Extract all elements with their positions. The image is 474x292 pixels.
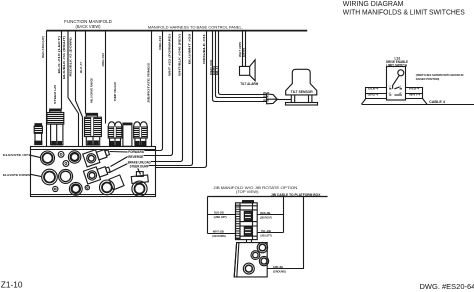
svg-text:(GROUND): (GROUND): [273, 269, 286, 273]
label LIMIT SWITCH: [386, 63, 408, 67]
limit switch terminal row box: [366, 88, 423, 99]
label ORG #13: [158, 36, 162, 50]
wire BLK #10 (LEFT): [61, 31, 63, 110]
label ELEVATE DOWN: [3, 173, 30, 177]
wire WHT-JIB: [208, 233, 236, 235]
label RED-JIB: [260, 211, 271, 215]
leader forward: [110, 151, 128, 154]
label WHT #255: [238, 42, 242, 57]
svg-text:ORG/BLK #31: ORG/BLK #31: [202, 33, 206, 64]
label WHT-JIB: [213, 230, 225, 234]
svg-text:RAISED POSITION): RAISED POSITION): [416, 77, 440, 81]
label BLU/WHT #29: [188, 33, 192, 64]
svg-text:GRN-JIB: GRN-JIB: [273, 265, 284, 269]
label (JIB DOWN): [212, 234, 226, 238]
label PUMP UNLOAD: [113, 82, 117, 101]
svg-text:WHT #23 (FORWARD): WHT #23 (FORWARD): [168, 34, 172, 76]
function manifold header: [64, 19, 112, 29]
svg-text:STEER DUMP: STEER DUMP: [130, 165, 150, 169]
svg-text:MANIFOLD HARNESS TO BASE CONTR: MANIFOLD HARNESS TO BASE CONTROL PANEL.: [148, 26, 243, 30]
bolt hole B: [63, 161, 69, 167]
wire RED-JIB: [257, 214, 283, 216]
label BRN (alarm): [242, 48, 246, 57]
valve steer dump: [131, 172, 148, 197]
label (GROUND): [273, 269, 286, 273]
svg-text:RED #394 (UP): RED #394 (UP): [41, 36, 45, 58]
svg-text:RED/BLK #2 (DOWN): RED/BLK #2 (DOWN): [69, 37, 73, 76]
label ORG #22: [101, 53, 105, 67]
label BLK-JIB: [214, 211, 224, 215]
wire RED/BLK #2 (DOWN): [76, 31, 83, 147]
wire ORG #13 / forward: [144, 31, 162, 151]
svg-text:(BACK VIEW): (BACK VIEW): [76, 24, 102, 29]
bolt hole D: [85, 185, 89, 189]
wire BLK #7: [85, 31, 87, 114]
svg-text:FORWARD: FORWARD: [128, 150, 144, 154]
svg-text:JIB MANIFOLD W/O JIB ROTATE OP: JIB MANIFOLD W/O JIB ROTATE OPTION: [213, 185, 297, 190]
label DRIVE ENABLE: [386, 60, 408, 64]
svg-text:BLK #7: BLK #7: [79, 62, 83, 73]
svg-text:HI/LO DRIVE RANGE: HI/LO DRIVE RANGE: [90, 78, 94, 103]
label WHT-4: [409, 93, 420, 97]
label GRN-JIB: [273, 265, 284, 269]
label ELEVATE UP: [3, 153, 28, 157]
svg-text:TILT ALARM: TILT ALARM: [240, 82, 258, 86]
label RED/BLK #2 (DOWN): [69, 37, 73, 76]
svg-text:BLK-JIB: BLK-JIB: [214, 211, 224, 215]
port mid: [59, 169, 73, 183]
bolt hole A: [58, 152, 64, 158]
svg-text:ORG #22: ORG #22: [101, 53, 105, 67]
label BLK #7: [79, 62, 83, 73]
manifold block: [31, 147, 156, 197]
wire ORG/BLK #31: [156, 31, 207, 168]
svg-text:(JIB DOWN): (JIB DOWN): [212, 234, 226, 238]
jib left drop wire: [207, 197, 209, 234]
svg-text:STEER L/R: STEER L/R: [53, 84, 57, 104]
wire ORG #22: [105, 31, 107, 124]
wire BLK/BLK #11 (RIGHT): [68, 31, 79, 147]
label BLK #10 (LEFT): [57, 36, 61, 74]
svg-text:BLU: BLU: [215, 66, 219, 75]
bus wire (manifold harness): [47, 30, 308, 32]
label JIB/ROTATE RINGS: [147, 63, 151, 103]
cable 4 line: [362, 104, 474, 106]
valve stem between coils: [123, 123, 132, 146]
label RED #394 (UP): [41, 36, 45, 58]
svg-text:BLU/WHT #29: BLU/WHT #29: [188, 33, 192, 64]
wire BLU/WHT #29 / steer dump: [149, 31, 193, 166]
label TILT SENSOR: [291, 90, 314, 94]
svg-text:JIB/ROTATE RINGS: JIB/ROTATE RINGS: [147, 63, 151, 103]
label (JIB UP): [214, 215, 227, 219]
svg-text:CABLE 4: CABLE 4: [429, 100, 445, 104]
note switches shown: [416, 73, 464, 81]
coil hi/lo drive range: [85, 113, 102, 145]
jib valve stack: [236, 201, 258, 240]
svg-text:BRN: BRN: [242, 48, 246, 57]
label BLK: [263, 94, 269, 98]
label RED-4: [409, 86, 419, 90]
svg-text:(JIB UP): (JIB UP): [214, 215, 227, 219]
coil small left: [34, 124, 42, 145]
tilt sensor body: [286, 69, 317, 95]
footer drawing number right: [420, 282, 474, 291]
wire GRN-JIB ground: [267, 197, 303, 269]
port dark top: [68, 151, 80, 163]
label BLK-4: [368, 86, 378, 90]
connector cone to tilt sensor: [267, 94, 278, 104]
svg-text:WHT-4: WHT-4: [409, 93, 420, 97]
title text: [343, 1, 465, 16]
label BLU: [215, 66, 219, 75]
label LS1: [395, 56, 401, 60]
wire RED #394 (UP): [46, 31, 48, 147]
label RED: [263, 98, 269, 102]
port dark bottom: [69, 182, 82, 195]
wire BLK-JIB: [208, 214, 236, 216]
label (JIB LEFT): [260, 233, 272, 237]
label YEL-JIB: [261, 229, 272, 233]
svg-text:BLK/BLK #11 (RIGHT): BLK/BLK #11 (RIGHT): [62, 36, 66, 79]
leader elevate up: [29, 155, 41, 158]
label ORG-4: [368, 93, 379, 97]
label JIB CABLE TO PLATFORM BOX: [271, 193, 321, 197]
svg-text:YEL-JIB: YEL-JIB: [261, 229, 272, 233]
wire YEL-JIB: [257, 232, 283, 234]
svg-text:(JIB RIGHT): (JIB RIGHT): [260, 216, 272, 220]
port elevate up: [41, 151, 55, 165]
label HI/LO DRIVE RANGE: [90, 78, 94, 103]
wire to jib/rotate: [151, 31, 153, 147]
tilt sensor legs: [291, 95, 312, 103]
limit switch body: [387, 67, 406, 101]
svg-text:ORG #13: ORG #13: [158, 36, 162, 50]
svg-text:ELEVATE DOWN: ELEVATE DOWN: [3, 173, 30, 177]
leader reverse: [111, 157, 128, 167]
label WHT: [263, 91, 270, 95]
tilt sensor wire RED #19: [213, 31, 267, 102]
label BLK/BLK #11 (RIGHT): [62, 36, 66, 79]
label WHT #23 (FORWARD): [168, 34, 172, 76]
svg-text:Z1-10: Z1-10: [1, 279, 23, 289]
label STEER DUMP: [130, 165, 150, 169]
label REVERSE: [128, 155, 144, 159]
bolt hole C: [53, 186, 58, 191]
tilt sensor wire BLU: [219, 31, 267, 95]
leader elevate down: [31, 174, 42, 176]
footer drawing number left: [1, 279, 23, 289]
svg-text:DWG. #ES20-64: DWG. #ES20-64: [420, 282, 474, 291]
leader brake unload: [109, 164, 127, 173]
svg-text:REVERSE: REVERSE: [128, 155, 144, 159]
svg-text:WIRING DIAGRAM: WIRING DIAGRAM: [343, 1, 404, 8]
limit switch contacts: [389, 87, 402, 95]
valve forward (tilted square): [83, 146, 111, 167]
label BRN: [212, 66, 216, 75]
jib cable line: [208, 196, 328, 198]
label TILT ALARM: [240, 82, 258, 86]
svg-text:(JIB LEFT): (JIB LEFT): [260, 233, 272, 237]
coil 4: [134, 122, 148, 146]
svg-text:ORG-4: ORG-4: [368, 93, 379, 97]
label FORWARD: [128, 150, 144, 154]
label BRAKE UNLOAD: [128, 160, 152, 164]
tilt sensor wire BRN: [216, 31, 267, 98]
coil steer: solenoid stack 1: [47, 109, 64, 145]
label ORG/BLK #31: [202, 33, 206, 64]
svg-text:WHT-JIB: WHT-JIB: [213, 230, 225, 234]
valve reverse (tilted square): [83, 163, 111, 184]
svg-text:WHT/BLK #246 (REV): WHT/BLK #246 (REV): [178, 34, 182, 76]
label CABLE 4: [429, 100, 445, 104]
svg-text:BLK-4: BLK-4: [368, 86, 378, 90]
tilt sensor base: [286, 103, 318, 106]
svg-text:RED-JIB: RED-JIB: [260, 211, 271, 215]
svg-text:ELEVATE UP: ELEVATE UP: [3, 153, 28, 157]
svg-text:TILT SENSOR: TILT SENSOR: [291, 90, 314, 94]
wire WHT/BLK #246 / brake unload: [151, 31, 183, 162]
valve brake unload: [100, 175, 125, 195]
label STEER L/R: [53, 84, 57, 104]
cable 4 wrap: [362, 99, 428, 105]
label RED #19: [209, 60, 213, 75]
jib right riser wire: [283, 197, 285, 233]
label (JIB RIGHT): [260, 216, 272, 220]
svg-text:(TOP VIEW): (TOP VIEW): [236, 190, 259, 194]
tilt alarm wires: [243, 31, 246, 67]
jib title: [213, 185, 297, 194]
svg-text:WITH MANIFOLDS & LIMIT SWITCHE: WITH MANIFOLDS & LIMIT SWITCHES: [343, 10, 465, 17]
jib manifold block: [234, 240, 268, 277]
manifold harness note: [148, 26, 243, 30]
label WHT/BLK #246 (REV): [178, 34, 182, 76]
wire WHT #23 / reverse: [144, 31, 173, 156]
leader steer dump: [138, 168, 141, 174]
coil pump unload: [108, 122, 122, 146]
tilt alarm speaker: [240, 60, 256, 81]
svg-text:BLK #10 (LEFT): BLK #10 (LEFT): [57, 36, 61, 74]
limit switch lever: [398, 70, 404, 76]
svg-text:RED-4: RED-4: [409, 86, 419, 90]
svg-text:PUMP UNLOAD: PUMP UNLOAD: [113, 82, 117, 101]
port elevate down: [42, 169, 58, 185]
wire cone to tilt sensor: [277, 99, 291, 101]
